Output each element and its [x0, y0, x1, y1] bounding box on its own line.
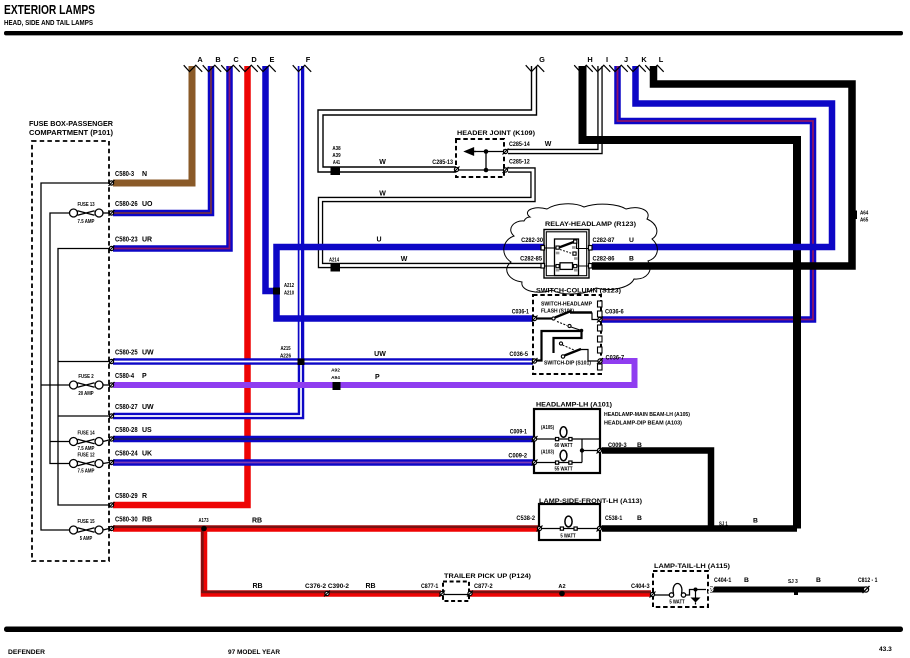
svg-text:SWITCH-DIP (S101): SWITCH-DIP (S101) [544, 361, 591, 367]
svg-text:F: F [306, 55, 311, 64]
top rule [4, 31, 903, 35]
svg-text:W: W [379, 159, 386, 166]
svg-text:W: W [545, 141, 552, 148]
tail lamp ground [691, 588, 701, 605]
node labels A64 A65 [860, 211, 869, 224]
svg-text:UO: UO [142, 201, 153, 208]
junction SJ3 [795, 590, 798, 595]
svg-text:RB: RB [252, 583, 262, 590]
svg-text:C036-1: C036-1 [512, 309, 529, 316]
wire-end hatch G [526, 65, 545, 72]
svg-text:C580-27: C580-27 [115, 404, 138, 411]
wire UK from C580-24 to headlamp C009-2 [113, 459, 534, 466]
svg-text:C580-26: C580-26 [115, 201, 138, 208]
svg-text:L: L [659, 55, 664, 64]
svg-text:B: B [637, 515, 642, 522]
svg-text:HEADER JOINT (K109): HEADER JOINT (K109) [457, 130, 535, 137]
svg-text:W: W [401, 256, 408, 263]
bottom rule [4, 627, 903, 633]
wire-end hatch H [574, 65, 593, 72]
svg-text:U: U [376, 237, 381, 244]
svg-text:C877-2: C877-2 [474, 583, 493, 590]
switch connector labels [509, 309, 624, 362]
wire-end hatch I [592, 65, 611, 72]
connector C285-13 [454, 167, 460, 173]
fuse 13 [70, 209, 104, 217]
switch column S123 dashed box [533, 295, 601, 374]
connector C285-14 [503, 149, 509, 155]
fuse 2 [70, 381, 104, 389]
svg-text:7.5 AMP: 7.5 AMP [78, 469, 95, 475]
svg-text:C009-1: C009-1 [510, 429, 527, 436]
wire H black to ground run [583, 66, 798, 529]
svg-text:A38: A38 [332, 146, 340, 152]
relay cloud outline [504, 204, 658, 294]
svg-text:A64: A64 [860, 211, 869, 217]
svg-text:C812 - 1: C812 - 1 [858, 577, 878, 584]
headlamp connector labels [508, 429, 642, 460]
svg-text:A94: A94 [331, 375, 340, 381]
node labels A212 A210 [284, 283, 294, 297]
svg-text:C877-1: C877-1 [421, 583, 438, 590]
connector C580-4 [109, 382, 115, 388]
svg-text:B: B [744, 577, 749, 584]
header joint K109 dashed box [456, 139, 504, 177]
svg-text:HEADLAMP-LH (A101): HEADLAMP-LH (A101) [536, 402, 612, 409]
svg-text:UK: UK [142, 451, 152, 458]
circuit letters A-L [197, 55, 663, 64]
connector C580-30 [109, 526, 115, 532]
wire G white hollow loop to header joint C285-13 [321, 66, 535, 170]
junction A214 [331, 265, 340, 272]
svg-text:UW: UW [142, 350, 154, 357]
svg-text:C036-7: C036-7 [606, 355, 625, 362]
svg-text:HEADLAMP-DIP BEAM (A103): HEADLAMP-DIP BEAM (A103) [604, 421, 682, 427]
svg-text:55 WATT: 55 WATT [554, 467, 573, 473]
svg-text:COMPARTMENT (P101): COMPARTMENT (P101) [29, 128, 114, 137]
svg-text:C036-5: C036-5 [509, 351, 528, 358]
svg-text:H: H [587, 55, 592, 64]
connector C036-5 [532, 358, 538, 364]
wire L black B to relay C282-86 [592, 66, 852, 266]
wire-end hatch D [239, 65, 258, 72]
junction A215 A226 [298, 359, 304, 365]
svg-text:A215: A215 [280, 346, 290, 352]
svg-text:J: J [624, 55, 628, 64]
connector C009-3 [597, 448, 603, 454]
headlamp dip beam bulb A103 [536, 450, 582, 464]
node labels A215 A226 [280, 346, 291, 360]
svg-text:7.5 AMP: 7.5 AMP [78, 219, 95, 225]
svg-text:C404-3: C404-3 [631, 583, 650, 590]
svg-text:UW: UW [374, 351, 386, 358]
connector C877-2 [467, 591, 473, 597]
connector C580-23 [109, 246, 115, 252]
K109 connector labels [432, 141, 530, 166]
svg-text:(A103): (A103) [541, 450, 554, 456]
svg-text:US: US [142, 427, 152, 434]
svg-text:C580-29: C580-29 [115, 493, 138, 500]
wire E blue U [266, 66, 275, 291]
svg-text:(A105): (A105) [541, 425, 554, 431]
headlamp main beam bulb A105 [536, 427, 600, 441]
svg-text:B: B [816, 577, 821, 584]
wire D red R from C580-29 [113, 66, 248, 505]
svg-text:A65: A65 [860, 218, 868, 224]
svg-text:P: P [142, 373, 147, 380]
svg-text:C282-86: C282-86 [593, 256, 615, 263]
fuse 12 [70, 460, 104, 468]
fuse box P101 dashed outline [32, 141, 109, 561]
footer text [8, 646, 892, 656]
wire-end hatch A [184, 65, 203, 72]
svg-text:HEAD, SIDE AND TAIL LAMPS: HEAD, SIDE AND TAIL LAMPS [4, 20, 93, 27]
wire code labels [252, 141, 552, 590]
connector C538-1 [597, 526, 603, 532]
headlamp A101 box [534, 409, 600, 473]
svg-text:5 WATT: 5 WATT [669, 600, 685, 606]
wire K blue U to relay C282-87 [592, 66, 832, 247]
wire UW from C580-27 joining junction A215 [113, 362, 301, 417]
wire B from tail lamp C404-1 to C812-1 [710, 587, 866, 593]
connector C580-24 [109, 460, 115, 466]
wire-end hatch J [609, 65, 628, 72]
svg-text:LAMP-SIDE-FRONT-LH (A113): LAMP-SIDE-FRONT-LH (A113) [539, 498, 642, 505]
svg-text:P: P [375, 374, 380, 381]
svg-text:FUSE 12: FUSE 12 [77, 453, 94, 459]
COMPONENTS-LAYER [32, 65, 870, 607]
fuse 15 [70, 526, 104, 534]
svg-text:A: A [197, 55, 203, 64]
connector C404-1 [708, 587, 714, 593]
svg-text:RELAY-HEADLAMP (R123): RELAY-HEADLAMP (R123) [545, 221, 636, 228]
svg-text:C580-23: C580-23 [115, 237, 138, 244]
connector C580-28 [109, 436, 115, 442]
WIRES-LAYER [113, 66, 866, 594]
svg-text:G: G [539, 55, 545, 64]
connector C580-27 [109, 413, 115, 419]
junction A2 [559, 591, 565, 597]
tail lamp bulb [654, 584, 706, 598]
connector C580-25 [109, 359, 115, 365]
fuse labels [77, 202, 95, 542]
wire A brown N from C580-3 [113, 66, 192, 183]
connector C580-3 [109, 180, 115, 186]
svg-text:C282-30: C282-30 [521, 237, 543, 244]
wire W from header joint C285-12 to relay C282-85 [321, 170, 545, 266]
svg-text:FUSE 14: FUSE 14 [77, 431, 95, 437]
wire-end hatch E [257, 65, 276, 72]
svg-text:B: B [637, 442, 642, 449]
svg-text:A212: A212 [284, 283, 294, 289]
connector C009-2 [532, 460, 538, 466]
svg-text:B: B [629, 256, 634, 263]
svg-text:5 AMP: 5 AMP [80, 536, 93, 542]
wire U branch to relay C282-30 and switch C036-1 [277, 247, 545, 319]
wire UW from C580-25 to switch C036-5 [113, 358, 533, 365]
svg-text:FUSE BOX-PASSENGER: FUSE BOX-PASSENGER [29, 119, 114, 128]
svg-text:A210: A210 [284, 291, 294, 297]
tail lamp A115 dashed box [653, 571, 708, 607]
svg-text:FLASH (S108): FLASH (S108) [541, 309, 574, 315]
svg-text:SJ 3: SJ 3 [788, 579, 798, 585]
relay pins [541, 246, 545, 251]
svg-text:FUSE 2: FUSE 2 [78, 374, 93, 380]
svg-text:A214: A214 [329, 258, 340, 264]
svg-text:I: I [606, 55, 608, 64]
svg-text:C580-30: C580-30 [115, 517, 138, 524]
svg-text:C538-2: C538-2 [516, 515, 535, 522]
fuse 14 [70, 438, 104, 446]
wire B from headlamp C009-3 [602, 451, 711, 532]
svg-text:W: W [379, 191, 386, 198]
wire RB branch from A173 to trailer pickup [202, 529, 441, 594]
wire RB red from C580-30 to side lamp C538-2 [113, 527, 539, 529]
svg-text:C580-3: C580-3 [115, 171, 134, 178]
connector C036-7 [597, 358, 603, 364]
headlamp internal join [582, 439, 600, 463]
svg-text:RB: RB [142, 517, 152, 524]
svg-text:A226: A226 [280, 354, 291, 360]
side lamp bulb [541, 516, 598, 530]
connector C036-6 [597, 317, 603, 323]
svg-text:A92: A92 [331, 368, 340, 374]
svg-text:C: C [233, 55, 239, 64]
svg-text:TRAILER PICK UP (P124): TRAILER PICK UP (P124) [444, 573, 531, 580]
svg-text:B: B [753, 518, 758, 525]
svg-text:A2: A2 [558, 584, 565, 590]
svg-text:RB: RB [252, 518, 262, 525]
svg-text:C580-25: C580-25 [115, 350, 138, 357]
junction A92 A94 [333, 383, 340, 390]
svg-text:SWITCH-COLUMN (S123): SWITCH-COLUMN (S123) [536, 288, 621, 295]
connector C009-1 [532, 436, 538, 442]
svg-text:97 MODEL YEAR: 97 MODEL YEAR [228, 649, 280, 656]
svg-text:A173: A173 [198, 518, 208, 524]
wire C blue-red UR from C580-23 [113, 66, 230, 249]
fuse box internal feed wires [41, 183, 109, 530]
svg-text:K: K [641, 55, 647, 64]
svg-text:A39: A39 [332, 153, 340, 159]
svg-text:C285-14: C285-14 [509, 141, 530, 148]
wire B blue-orange UO from C580-26 [113, 66, 211, 213]
svg-text:C282-87: C282-87 [593, 237, 615, 244]
svg-text:LAMP-TAIL-LH (A115): LAMP-TAIL-LH (A115) [654, 563, 730, 570]
header joint internals [458, 148, 508, 170]
wire-end hatch F [293, 65, 312, 72]
svg-text:EXTERIOR LAMPS: EXTERIOR LAMPS [4, 2, 95, 17]
relay connector labels [520, 237, 634, 263]
wire P purple from C580-4 to switch C036-7 [113, 361, 635, 385]
junction A212 A210 [274, 288, 280, 294]
svg-text:C282-85: C282-85 [520, 256, 542, 263]
side lamp A113 box [539, 504, 600, 540]
svg-text:FUSE 13: FUSE 13 [77, 202, 94, 208]
svg-text:RB: RB [365, 583, 375, 590]
connector C877-1 [439, 591, 445, 597]
svg-text:43.3: 43.3 [879, 646, 892, 653]
svg-text:N: N [142, 171, 147, 178]
svg-text:C036-6: C036-6 [605, 309, 624, 316]
svg-text:5 WATT: 5 WATT [560, 534, 576, 540]
svg-text:D: D [251, 55, 257, 64]
wire-end hatch C [221, 65, 240, 72]
svg-text:20 AMP: 20 AMP [78, 391, 94, 397]
svg-text:SJ 1: SJ 1 [719, 522, 728, 528]
wire B from side lamp C538-1 to SJ1 [602, 525, 797, 532]
svg-text:C404-1: C404-1 [714, 577, 731, 584]
wire-end hatch L [645, 65, 664, 72]
svg-text:A41: A41 [333, 160, 340, 166]
svg-text:UR: UR [142, 237, 152, 244]
svg-text:7.5 AMP: 7.5 AMP [78, 446, 95, 452]
svg-text:DEFENDER: DEFENDER [8, 649, 45, 656]
wire-end hatch K [627, 65, 646, 72]
svg-text:60 WATT: 60 WATT [554, 443, 573, 449]
page title [4, 2, 95, 27]
svg-text:C580-24: C580-24 [115, 451, 138, 458]
svg-text:E: E [270, 55, 275, 64]
relay contact [545, 240, 589, 260]
svg-text:C009-2: C009-2 [508, 453, 527, 460]
svg-text:C538-1: C538-1 [605, 515, 622, 522]
wire F blue-white UW vertical [297, 66, 304, 362]
wire-end hatch B [203, 65, 222, 72]
junction A64 A65 [849, 211, 857, 219]
C580 connector labels [115, 171, 154, 524]
relay R123 box [544, 230, 589, 279]
switch pin strip right edge [598, 301, 603, 370]
svg-text:SWITCH-HEADLAMP: SWITCH-HEADLAMP [541, 302, 592, 308]
connector C580-26 [109, 210, 115, 216]
connector C036-1 [532, 316, 538, 322]
svg-text:C580-4: C580-4 [115, 373, 134, 380]
connector C812-1 [863, 586, 870, 593]
node labels A92 A94 [331, 368, 340, 382]
relay coil [545, 263, 589, 272]
connector C580-29 [109, 502, 115, 508]
wire RB from trailer pickup C877-2 to tail lamp C404-3 [470, 592, 651, 594]
connector C538-2 [537, 526, 543, 532]
switch dip S101 [559, 342, 598, 361]
svg-text:U: U [629, 237, 634, 244]
svg-text:FUSE 15: FUSE 15 [77, 519, 94, 525]
svg-text:HEADLAMP-MAIN BEAM-LH (A105): HEADLAMP-MAIN BEAM-LH (A105) [604, 412, 690, 418]
LABELS-LAYER [29, 55, 878, 606]
svg-text:C580-28: C580-28 [115, 427, 138, 434]
junction A38 A39 A41 [331, 168, 340, 175]
switch mid link [536, 329, 583, 361]
svg-text:UW: UW [142, 404, 154, 411]
svg-text:C285-13: C285-13 [432, 159, 453, 166]
svg-text:C009-3: C009-3 [608, 442, 627, 449]
svg-text:R: R [142, 493, 147, 500]
svg-text:B: B [215, 55, 220, 64]
junction labels A38 A39 A41 [332, 146, 340, 166]
svg-text:C376-2 C390-2: C376-2 C390-2 [305, 583, 349, 590]
wire I white hollow to header joint C285-14 [508, 66, 600, 152]
connector C376-2 C390-2 [324, 591, 330, 597]
connector C404-3 [650, 592, 656, 598]
wire US from C580-28 to headlamp C009-1 [113, 436, 534, 443]
junction A173 [201, 526, 207, 532]
wire J blue-red from switch C036-6 [599, 66, 814, 320]
junction SJ1 [709, 526, 714, 531]
connector C285-12 [503, 167, 509, 173]
trailer pickup P124 [443, 582, 469, 602]
switch headlamp flash S108 [536, 311, 598, 331]
svg-text:C285-12: C285-12 [509, 159, 530, 166]
switch sub labels [541, 302, 592, 367]
